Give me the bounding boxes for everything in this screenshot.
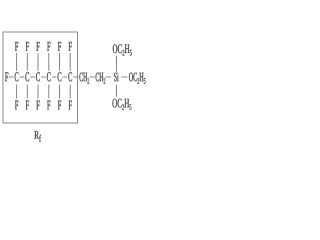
atom F top row above C5 <box>58 42 61 51</box>
bond C6 to top F <box>69 53 71 71</box>
bond C1 to C2 <box>20 76 25 78</box>
bond C5 to bottom F <box>59 85 61 99</box>
bond C1 to bottom F <box>16 85 18 99</box>
bond C6 to bottom F <box>69 85 71 99</box>
atom C6 <box>68 72 72 81</box>
atom F top row above C6 <box>69 42 72 51</box>
atom C2 <box>25 72 29 81</box>
bond C3 to C4 <box>41 76 46 78</box>
bond C4 to C5 <box>52 76 57 78</box>
bond C3 to top F <box>37 53 39 71</box>
atom F bottom row below C4 <box>47 101 50 110</box>
bond C5 to top F <box>59 53 61 71</box>
group CH2 second <box>96 73 106 84</box>
atom C1 <box>15 72 19 81</box>
atom F bottom row below C5 <box>58 101 61 110</box>
bond C2 to top F <box>26 53 28 71</box>
bond C1 to top F <box>16 53 18 71</box>
bond Si up to top OC2H5 <box>116 56 118 72</box>
atom F top row above C2 <box>26 42 29 51</box>
bond C2 to C3 <box>30 76 35 78</box>
atom F chain-left <box>5 72 8 81</box>
atom F bottom row below C1 <box>15 101 18 110</box>
bond Si to right OC2H5 <box>122 76 128 78</box>
group CH2 first <box>79 73 89 84</box>
bracket box around fluorocarbon unit <box>3 32 78 123</box>
atom F bottom row below C3 <box>36 101 39 110</box>
bond C4 to bottom F <box>48 85 50 99</box>
bond F to C1 <box>9 76 14 78</box>
atom F top row above C3 <box>36 42 39 51</box>
group OC2H5 right <box>129 73 145 84</box>
atom Si <box>114 73 118 82</box>
bond C5 to C6 <box>63 76 68 78</box>
bond CH2 to CH2 <box>89 76 94 78</box>
bond C6 to CH2 crossing box edge <box>73 76 78 78</box>
bond Si down to bottom OC2H5 <box>116 85 118 97</box>
atom C5 <box>58 72 62 81</box>
bond C3 to bottom F <box>37 85 39 99</box>
atom F bottom row below C6 <box>69 101 72 110</box>
bond CH2 to Si <box>106 76 111 78</box>
atom F bottom row below C2 <box>26 101 29 110</box>
atom F top row above C1 <box>15 42 18 51</box>
atom F top row above C4 <box>47 42 50 51</box>
label Rf below box <box>34 131 41 142</box>
group OC2H5 top <box>113 44 132 55</box>
group OC2H5 bottom <box>112 99 131 110</box>
atom C3 <box>36 72 40 81</box>
atom C4 <box>47 72 51 81</box>
bond C4 to top F <box>48 53 50 71</box>
bond C2 to bottom F <box>26 85 28 99</box>
